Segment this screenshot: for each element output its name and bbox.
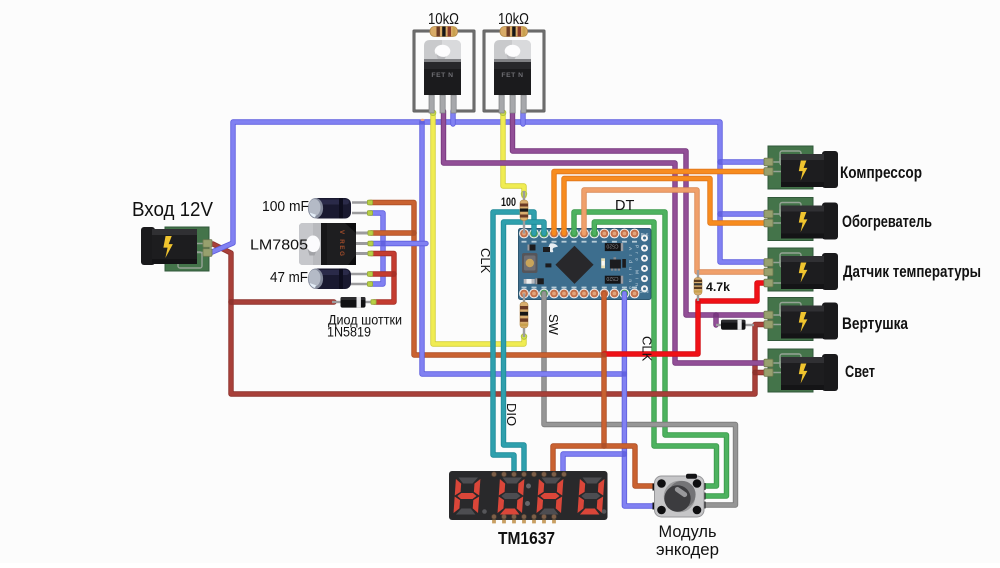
junction blue display (622, 451, 627, 456)
tip 47mF negative (367, 282, 372, 287)
wire wire purple Q2 drain to Вертушка (513, 111, 768, 315)
svg-text:Вход 12V: Вход 12V (132, 199, 214, 221)
wire wire purple stub to flyback diode (713, 315, 718, 325)
digit 1 H (453, 478, 480, 515)
connector J3 Обогреватель (768, 198, 838, 241)
junction brick out leg (411, 230, 416, 235)
junction red resistor (695, 298, 700, 303)
wire wire midred 47mF positive (370, 271, 394, 276)
junction brick display (601, 443, 606, 448)
junction blue conn1 (717, 159, 722, 164)
resistor R5 4.7k (694, 278, 702, 296)
wire wire darkred branch to schottky diode (231, 299, 334, 304)
junction darkred Свет (752, 370, 757, 375)
lead resistor R3 bottom (523, 219, 525, 234)
svg-text:LM7805: LM7805 (250, 237, 308, 254)
pins J2 (764, 158, 773, 175)
digit 2 U (497, 478, 524, 515)
svg-text:BLK: BLK (641, 232, 649, 237)
capacitor C2 47mF (308, 269, 351, 290)
wire gray loop around Q1 (414, 31, 474, 111)
svg-text:Датчик температуры: Датчик температуры (843, 263, 981, 281)
wire wire green DT pin4 to encoder (574, 212, 727, 496)
wire wire gray SW pin12 to encoder (544, 294, 736, 506)
lead schottky cathode (364, 301, 373, 303)
wire wire blue GND main from jack to right connectors (211, 122, 767, 262)
wire wire midred regulator input (371, 254, 394, 303)
power jack J1 Вход 12V (141, 227, 209, 271)
wire wire blue GND at regulator (371, 241, 426, 246)
connector J5 Вертушка (768, 298, 838, 341)
junction blue drop join (622, 371, 627, 376)
wire wire brick regulator output leg (371, 230, 414, 235)
lead 47mF positive (349, 273, 371, 275)
svg-text:C520: C520 (606, 275, 618, 281)
resistor R2 10k (500, 27, 528, 37)
wire wire orange pin6 to Компрессор (554, 172, 767, 234)
svg-text:CLK: CLK (640, 336, 655, 362)
svg-text:FET N: FET N (501, 72, 523, 79)
lead 47mF negative (349, 283, 371, 285)
svg-text:Модуль: Модуль (659, 522, 717, 541)
svg-text:10kΩ: 10kΩ (498, 11, 529, 28)
lead 100mF positive (352, 201, 371, 203)
lead LM7805 gnd (356, 242, 369, 245)
junction brick 5V (601, 352, 606, 357)
wire wire teal CLK display (493, 212, 534, 472)
svg-text:энкодер: энкодер (656, 540, 719, 559)
wire wire yellow Q2 gate to pin9 resistor (503, 113, 524, 196)
wire wire blue GND branch to Компрессор (720, 159, 767, 164)
junction blue conn2 (717, 211, 722, 216)
display decimal dots (482, 509, 487, 514)
regulator U2 LM7805 (299, 223, 356, 265)
svg-text:47 mF: 47 mF (270, 270, 308, 286)
svg-text:Обогреватель: Обогреватель (842, 213, 932, 231)
lead LM7805 out (356, 232, 369, 235)
pins J3 (764, 210, 773, 227)
tip LM7805 in (368, 251, 373, 256)
connector J6 Свет (768, 349, 838, 392)
display TM1637 (449, 471, 608, 523)
resistor R4 100 (pin10) (520, 302, 528, 328)
cap R3 top wire end (521, 191, 527, 197)
svg-text:SW: SW (546, 314, 561, 336)
svg-text:DIO: DIO (504, 403, 519, 426)
wire wire blue GND drop joins Arduino GND (422, 122, 624, 374)
lead resistor R4 top (523, 294, 525, 304)
lead resistor R5 top (697, 270, 699, 279)
pins J5 (764, 311, 773, 328)
svg-text:FET N: FET N (431, 72, 453, 79)
wire wire blue GND branch to display (563, 454, 624, 472)
capacitor C1 100mF (308, 198, 351, 219)
wire wire purple Q1 drain to Свет (444, 111, 768, 363)
cap R4 bottom wire end (521, 334, 527, 340)
encoder module (653, 474, 706, 517)
wire wire blue GND branch to Обогреватель (720, 211, 767, 216)
junction blue GND drop (419, 119, 424, 124)
junction blue caps (380, 241, 385, 246)
svg-text:GRN: GRN (639, 289, 648, 294)
svg-text:4.7k: 4.7k (706, 282, 731, 294)
lead resistor R3 top (523, 191, 525, 201)
wire wire orange pin5 to Обогреватель (564, 179, 767, 234)
svg-text:100 mF: 100 mF (262, 199, 309, 215)
wire wire blue stub Q1 source (450, 111, 455, 124)
resistor R3 100 (pin9) (520, 200, 528, 221)
digit 4 U (577, 478, 604, 515)
svg-text:Свет: Свет (845, 363, 875, 381)
svg-text:DT: DT (615, 198, 634, 214)
wire wire blue stub Q2 source (520, 111, 525, 124)
svg-text:Вертушка: Вертушка (842, 315, 909, 333)
tip schottky cathode (371, 300, 376, 305)
svg-text:V REG: V REG (338, 230, 345, 256)
lead flyback cathode (745, 324, 754, 326)
bendpoint dot (421, 119, 425, 121)
pins J4 (764, 259, 773, 287)
tip LM7805 gnd (368, 241, 373, 246)
tip 100mF positive (367, 200, 372, 205)
pins J6 (764, 359, 773, 376)
lead LM7805 in (356, 252, 369, 255)
wire wire blue GND from Arduino to encoder (624, 294, 656, 507)
svg-text:C520: C520 (606, 243, 618, 249)
cap Q1 gate wire end (430, 110, 436, 116)
wire wire darkred branch to Свет (755, 370, 767, 375)
connector J2 Компрессор (768, 146, 838, 189)
wire wire brick 5V rail from regulator output (370, 203, 604, 356)
diode D2 flyback (721, 320, 746, 330)
lead 100mF negative (352, 212, 371, 214)
lead schottky anode (332, 301, 342, 303)
wire wire blue capacitor negatives (370, 213, 383, 284)
junction midred 47mF (391, 271, 396, 276)
tip 100mF negative (367, 211, 372, 216)
transistor Q2 (TO-220 FET N) (494, 40, 531, 113)
Arduino Pro Mini U1 (519, 229, 652, 300)
diode D1 1N5819 (schottky) (341, 297, 366, 308)
wire wire brick VCC down from Arduino (601, 294, 606, 447)
digit 3 H (536, 478, 563, 515)
lead resistor R4 bottom (523, 327, 525, 337)
lead flyback anode (716, 324, 722, 326)
lead resistor R5 bottom (697, 293, 699, 301)
tip 47mF positive (367, 272, 372, 277)
wire wire yellow Q1 gate to pin10 resistor (433, 113, 524, 344)
wire wire green pin2 to encoder (594, 222, 716, 486)
svg-text:100: 100 (501, 195, 516, 209)
wire wire salmon pin3 to Датчик температуры (584, 190, 767, 272)
wire wire darkred 12V+ from jack to load connectors (213, 244, 767, 394)
wire gray loop around Q2 (484, 31, 544, 111)
svg-text:10kΩ: 10kΩ (428, 11, 459, 28)
wire wire brick 5V to display and encoder (553, 446, 656, 486)
resistor R1 10k (430, 27, 458, 37)
cap Q2 gate wire end (500, 110, 506, 116)
display colon (526, 484, 531, 489)
junction purple flyback (713, 312, 718, 317)
transistor Q1 (TO-220 FET N) (424, 40, 461, 113)
wire wire red 4.7k pullup net (604, 283, 767, 354)
pins J1 (203, 240, 212, 257)
svg-text:Компрессор: Компрессор (840, 164, 922, 182)
tip LM7805 out (368, 231, 373, 236)
connector J4 Датчик температуры (768, 248, 838, 291)
svg-text:CLK: CLK (478, 248, 493, 274)
wire wire teal DIO display (504, 222, 545, 472)
junction darkred schottky (228, 299, 233, 304)
svg-text:1N5819: 1N5819 (327, 325, 371, 340)
svg-text:TM1637: TM1637 (498, 528, 555, 548)
